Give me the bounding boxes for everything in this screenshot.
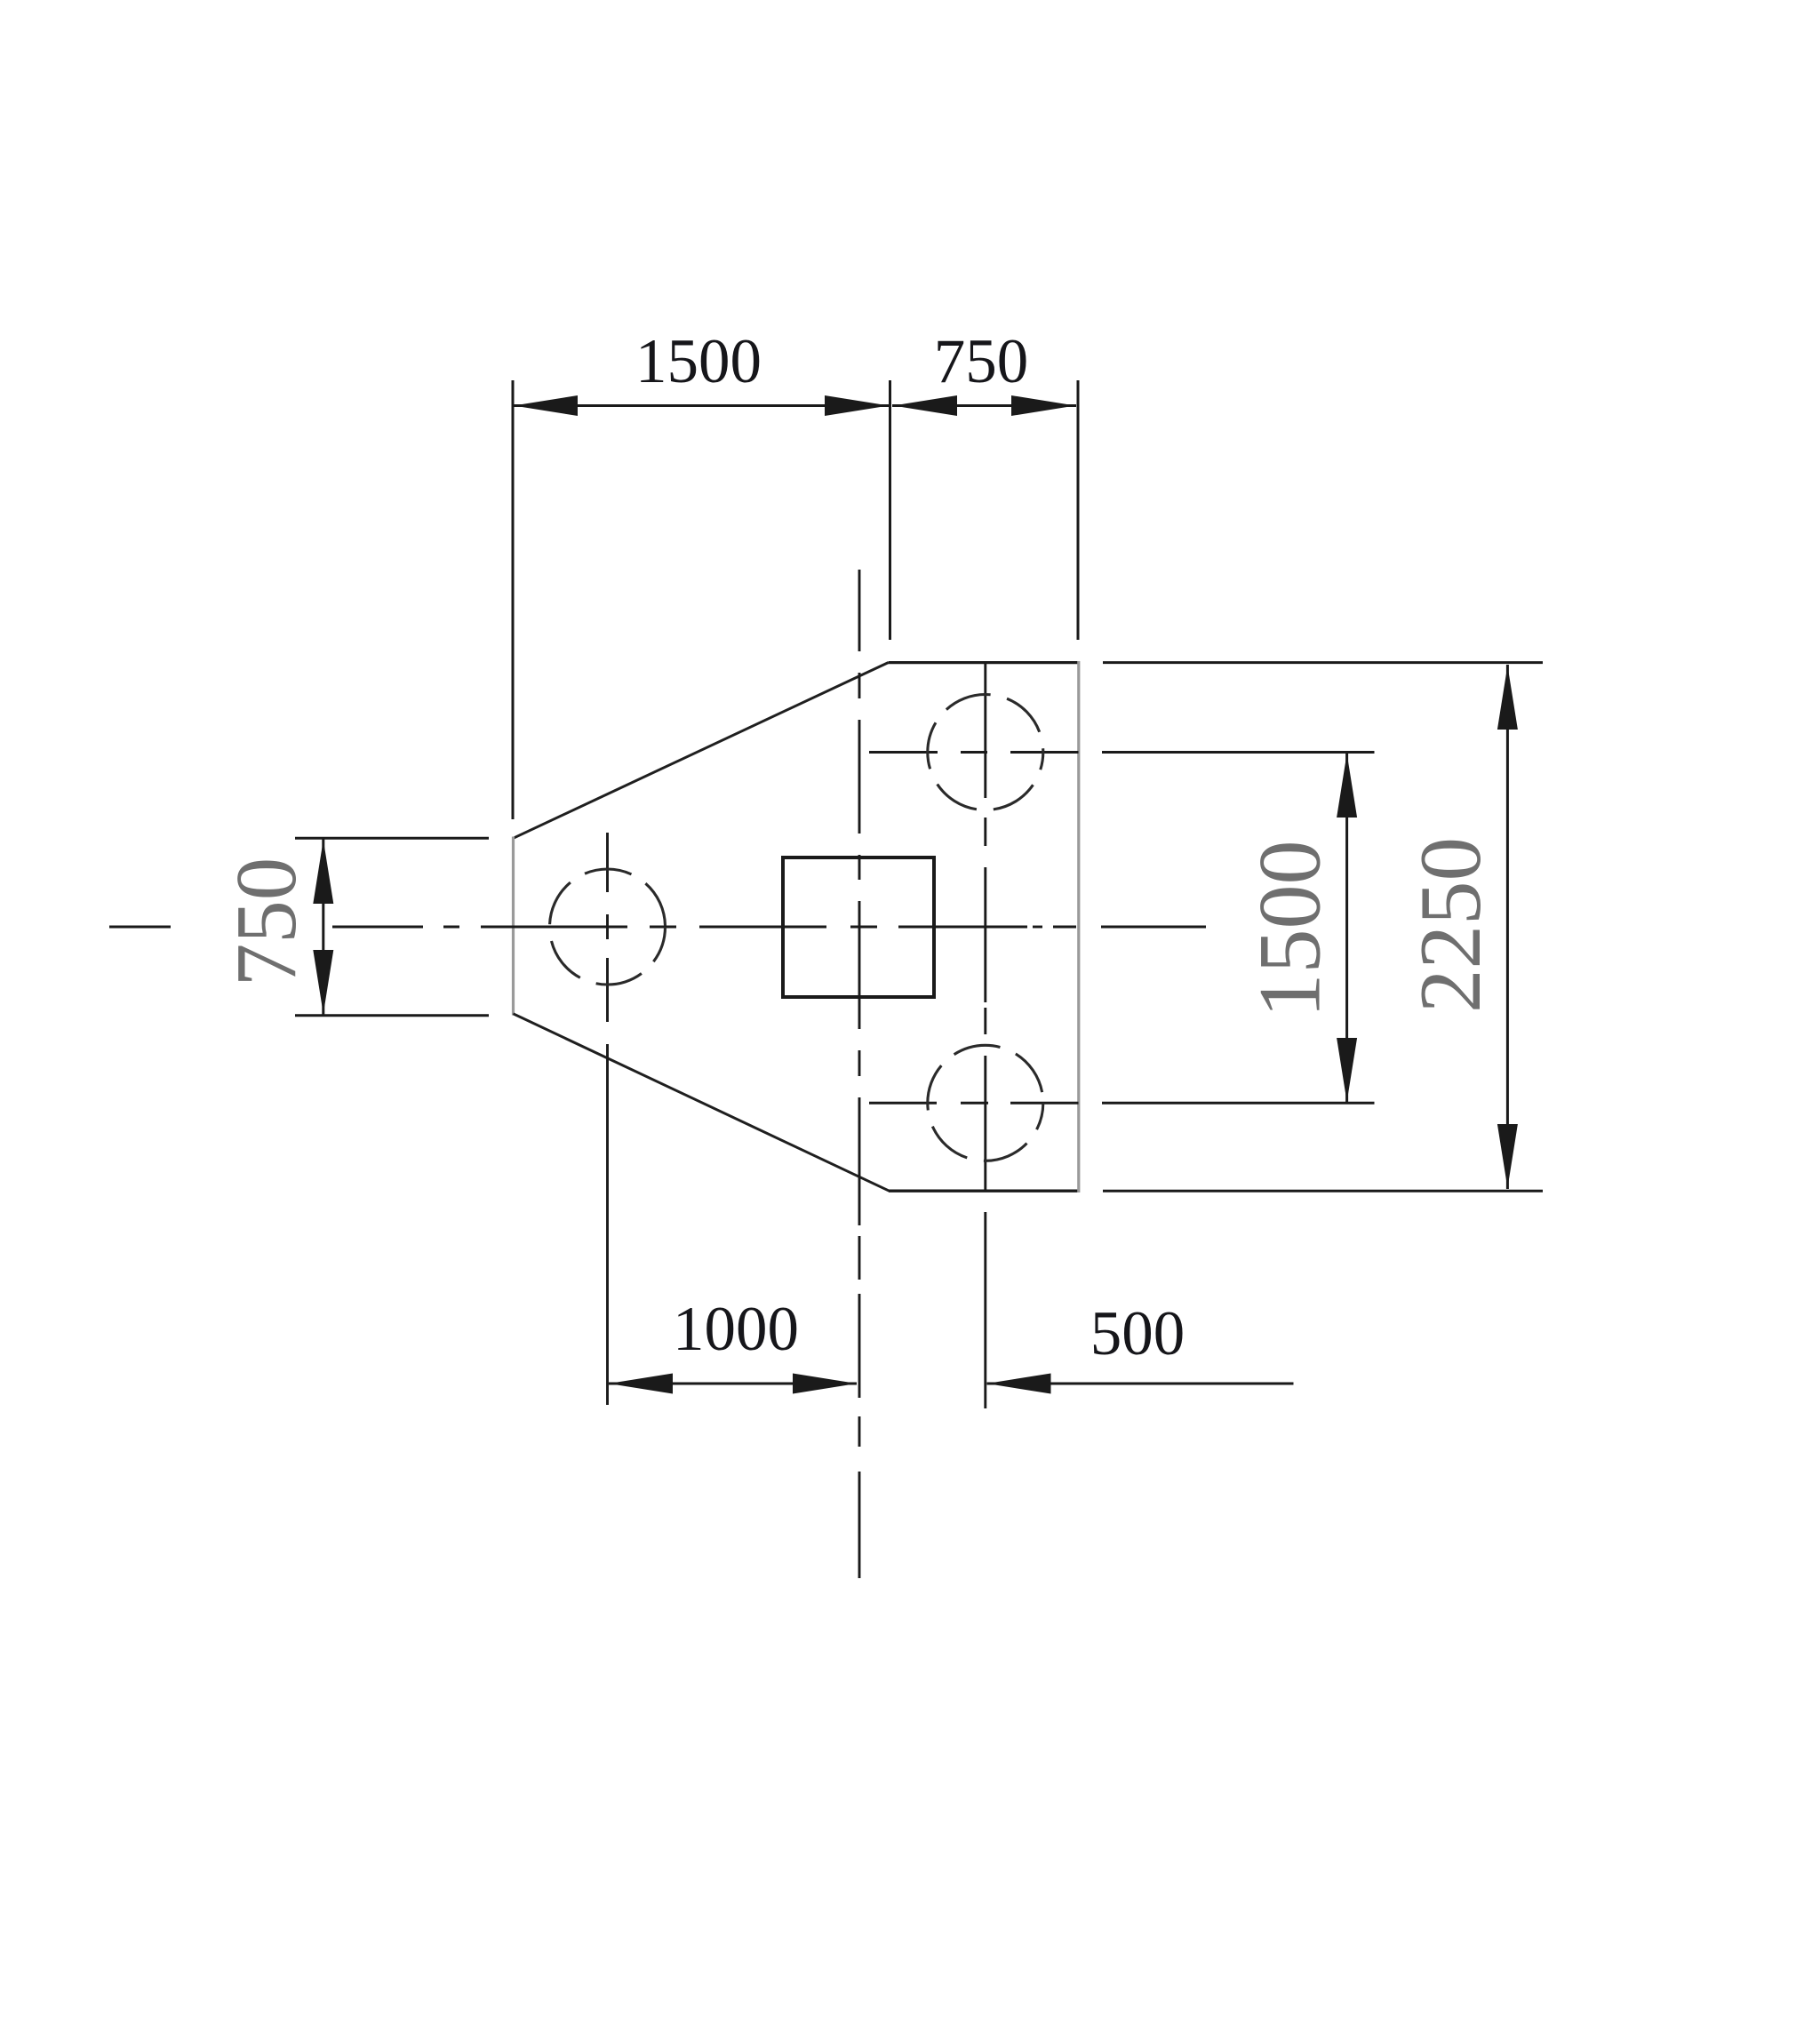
plate top edge bbox=[889, 661, 1079, 664]
top dimension extension line middle (x=1001.5) bbox=[889, 380, 891, 640]
arrowhead bottom of right 1500 bbox=[1337, 1038, 1357, 1102]
upper right hole dashed circle bbox=[928, 695, 1043, 810]
arrowhead top of left 750 bbox=[313, 840, 333, 904]
arrowhead right of 1500 top bbox=[825, 395, 889, 416]
arrowhead left of 1500 top bbox=[514, 395, 578, 416]
arrowhead right of 1000 bbox=[793, 1374, 857, 1394]
2250 bottom extension line bbox=[1103, 1190, 1543, 1192]
plate upper diagonal edge bbox=[514, 663, 889, 839]
dimension line 750 (top) bbox=[892, 404, 1076, 407]
svg-text:750: 750 bbox=[934, 327, 1029, 396]
1500 right dimension line bbox=[1345, 754, 1348, 1102]
top dimension extension line left (x=577) bbox=[512, 380, 515, 819]
2250 top extension line bbox=[1103, 661, 1543, 664]
arrowhead top of 2250 bbox=[1497, 666, 1518, 730]
plate lower diagonal edge bbox=[514, 1014, 890, 1191]
plate bottom edge bbox=[889, 1190, 1079, 1192]
left 750 dimension: top extension line bbox=[295, 837, 489, 840]
svg-text:1500: 1500 bbox=[635, 327, 762, 396]
arrowhead right of 750 top bbox=[1011, 395, 1075, 416]
main horizontal centerline (dash-dot) bbox=[109, 926, 1206, 929]
left 750 dimension line bbox=[322, 839, 324, 1015]
plate right edge (grey) bbox=[1077, 661, 1080, 1192]
center square (column) bbox=[783, 857, 934, 997]
arrowhead left of 750 top bbox=[893, 395, 957, 416]
arrowhead bottom of 2250 bbox=[1497, 1124, 1518, 1188]
1500 right: top extension line through upper circle bbox=[869, 751, 938, 754]
right bolt centerline / extension (x=1108.8, dash-dot) bbox=[984, 664, 986, 1408]
2250 dimension line bbox=[1506, 665, 1509, 1189]
lower right hole dashed circle bbox=[928, 1045, 1043, 1161]
top dimension extension line right (x=1213) bbox=[1077, 380, 1080, 640]
svg-text:2250: 2250 bbox=[1402, 837, 1499, 1013]
main vertical centerline (dash-dot) bbox=[858, 570, 861, 1578]
arrowhead of 500 (points left) bbox=[987, 1374, 1051, 1394]
svg-text:1000: 1000 bbox=[673, 1295, 799, 1364]
bottom dimension line 500 (leader with outside arrow) bbox=[987, 1383, 1294, 1385]
arrowhead top of right 1500 bbox=[1337, 754, 1357, 818]
left bolt centerline / extension (x=683.5, dash-dot) bbox=[606, 833, 609, 1405]
plate left edge (grey) bbox=[512, 837, 515, 1016]
svg-text:750: 750 bbox=[219, 857, 314, 987]
left hole dashed circle bbox=[550, 869, 666, 985]
arrowhead bottom of left 750 bbox=[313, 950, 333, 1014]
svg-text:500: 500 bbox=[1090, 1299, 1185, 1368]
dimension line 1500 (top) bbox=[514, 404, 890, 407]
left 750 dimension: bottom extension line bbox=[295, 1014, 489, 1017]
1500 right: bottom extension line through lower circle bbox=[869, 1102, 937, 1105]
svg-text:1500: 1500 bbox=[1241, 841, 1339, 1018]
bottom dimension line 1000 bbox=[609, 1383, 857, 1385]
arrowhead left of 1000 bbox=[609, 1374, 673, 1394]
